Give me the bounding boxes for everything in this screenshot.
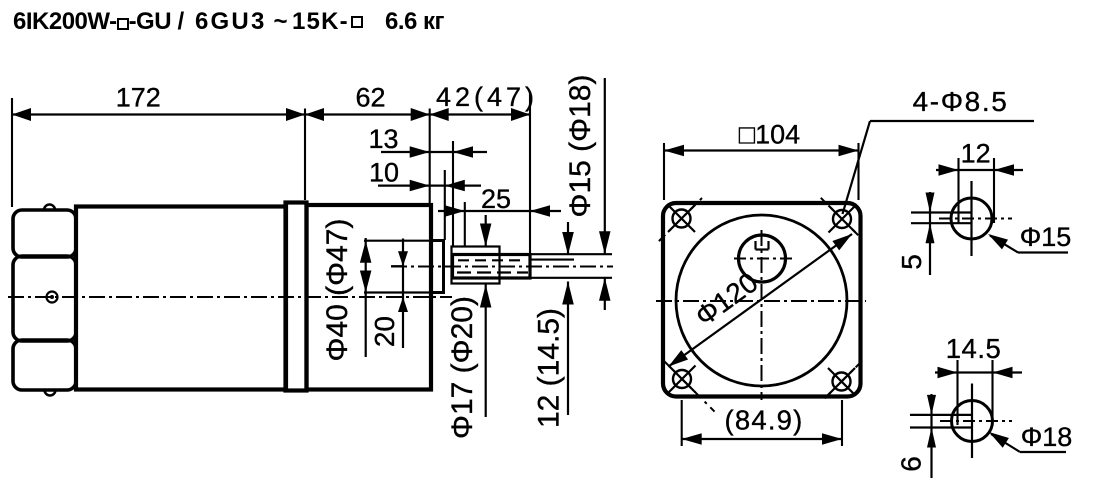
svg-text:62: 62	[355, 83, 385, 113]
svg-text:12 (14.5): 12 (14.5)	[533, 308, 566, 428]
svg-text:10: 10	[369, 158, 399, 188]
svg-text:13: 13	[368, 124, 398, 154]
svg-text:12: 12	[961, 139, 991, 169]
svg-text:4-Φ8.5: 4-Φ8.5	[913, 86, 1009, 117]
svg-text:14.5: 14.5	[946, 333, 1002, 364]
svg-text:20: 20	[369, 316, 400, 347]
svg-text:(84.9): (84.9)	[724, 405, 803, 436]
svg-text:□104: □104	[739, 120, 800, 150]
svg-text:25: 25	[481, 184, 511, 214]
svg-text:6: 6	[896, 456, 927, 472]
svg-text:172: 172	[116, 83, 161, 113]
svg-text:Φ15: Φ15	[1020, 222, 1072, 252]
svg-text:Φ17 (Φ20): Φ17 (Φ20)	[446, 296, 479, 439]
svg-text:42(47): 42(47)	[436, 82, 538, 112]
svg-text:Φ40 (Φ47): Φ40 (Φ47)	[321, 219, 354, 362]
svg-text:5: 5	[896, 254, 927, 270]
svg-text:Φ18: Φ18	[1021, 422, 1073, 452]
svg-text:Φ120: Φ120	[689, 266, 763, 332]
svg-text:Φ15 (Φ18): Φ15 (Φ18)	[564, 75, 597, 218]
